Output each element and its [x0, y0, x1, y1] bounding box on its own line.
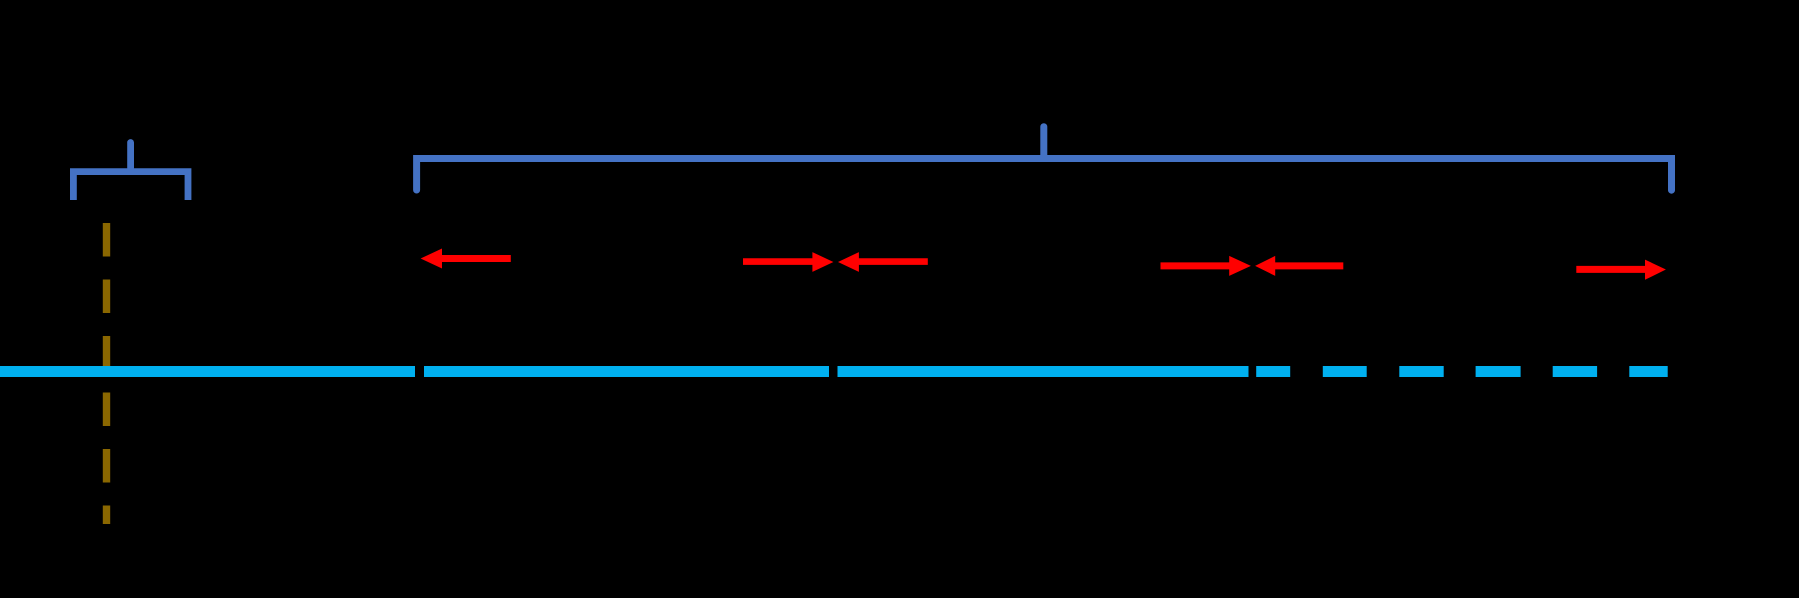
cyan timeline dash 6 — [1629, 366, 1667, 377]
small bracket (left) — [73, 172, 188, 200]
red arrow 3 (points left) — [838, 252, 928, 272]
cyan timeline segment B — [424, 366, 829, 377]
red arrow 1 (points left) — [421, 249, 511, 269]
cyan timeline segment A — [0, 366, 415, 377]
small bracket center tick — [127, 143, 134, 169]
cyan timeline dash 5 — [1553, 366, 1597, 377]
red arrow 5 (points left) — [1255, 256, 1343, 276]
large bracket (top) — [417, 159, 1672, 191]
cyan timeline dash 3 — [1399, 366, 1443, 377]
red arrow 2 (points right) — [743, 252, 833, 272]
cyan timeline dash 1 — [1256, 366, 1290, 377]
cyan timeline dash 4 — [1476, 366, 1521, 377]
cyan timeline segment C — [838, 366, 1249, 377]
red arrow 4 (points right) — [1161, 256, 1251, 276]
gold dashed vertical line — [103, 223, 110, 524]
large bracket center tick — [1040, 127, 1047, 155]
red arrow 6 (points right) — [1576, 260, 1666, 280]
cyan timeline dash 2 — [1323, 366, 1367, 377]
